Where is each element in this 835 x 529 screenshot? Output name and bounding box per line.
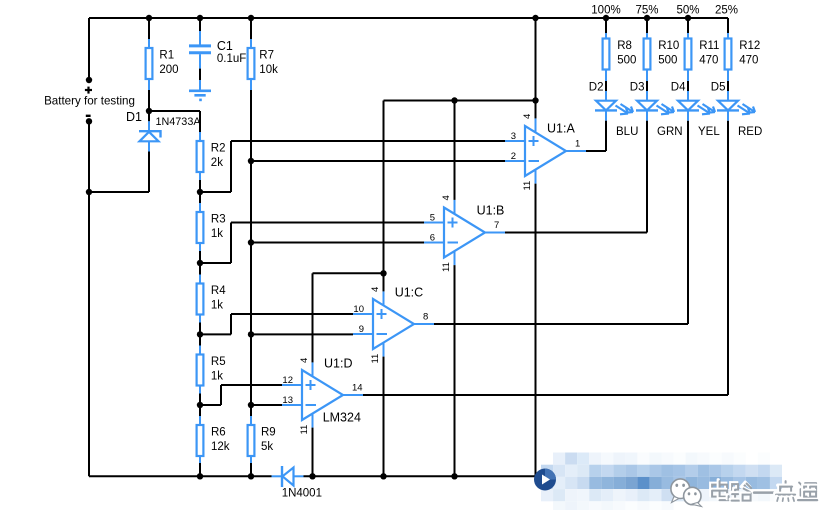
svg-text:11: 11: [299, 425, 310, 435]
svg-text:Battery for testing: Battery for testing: [44, 95, 135, 108]
svg-text:U1:D: U1:D: [324, 357, 352, 371]
svg-text:R11: R11: [699, 40, 719, 52]
svg-text:25%: 25%: [715, 5, 738, 17]
svg-text:14: 14: [352, 383, 363, 394]
svg-text:R1: R1: [159, 50, 174, 62]
svg-text:D1: D1: [126, 110, 142, 124]
svg-text:C1: C1: [217, 39, 233, 53]
svg-text:500: 500: [617, 55, 636, 67]
svg-text:1: 1: [575, 139, 580, 150]
svg-text:LM324: LM324: [323, 411, 361, 425]
svg-text:470: 470: [739, 55, 758, 67]
svg-text:1k: 1k: [211, 300, 223, 312]
svg-text:4: 4: [370, 287, 381, 292]
svg-text:3: 3: [511, 131, 516, 142]
svg-text:1N4001: 1N4001: [282, 487, 322, 499]
svg-text:200: 200: [159, 64, 178, 76]
svg-text:R4: R4: [211, 285, 226, 297]
svg-text:R8: R8: [617, 40, 632, 52]
svg-text:10: 10: [353, 304, 364, 315]
svg-text:6: 6: [430, 233, 435, 244]
svg-text:2: 2: [511, 151, 516, 162]
svg-text:R5: R5: [211, 356, 226, 368]
svg-text:8: 8: [423, 312, 428, 323]
svg-text:4: 4: [522, 114, 533, 119]
svg-text:R12: R12: [739, 40, 760, 52]
svg-text:1N4733A: 1N4733A: [156, 116, 202, 128]
svg-text:R6: R6: [211, 427, 226, 439]
svg-text:R3: R3: [211, 214, 226, 226]
svg-text:U1:A: U1:A: [547, 122, 575, 136]
svg-text:9: 9: [359, 324, 364, 335]
svg-text:470: 470: [699, 55, 718, 67]
svg-text:GRN: GRN: [657, 126, 683, 138]
svg-text:R10: R10: [658, 40, 679, 52]
svg-text:1k: 1k: [211, 228, 223, 240]
svg-text:R9: R9: [261, 427, 276, 439]
svg-text:75%: 75%: [635, 5, 658, 17]
svg-text:RED: RED: [738, 126, 762, 138]
svg-text:R2: R2: [211, 143, 226, 155]
svg-text:D4: D4: [671, 82, 686, 94]
svg-text:U1:B: U1:B: [477, 204, 505, 218]
svg-text:YEL: YEL: [698, 126, 720, 138]
svg-text:U1:C: U1:C: [395, 286, 423, 300]
svg-text:4: 4: [441, 195, 452, 200]
svg-text:500: 500: [658, 55, 677, 67]
svg-text:2k: 2k: [211, 157, 223, 169]
svg-text:50%: 50%: [676, 5, 699, 17]
svg-text:5k: 5k: [261, 441, 273, 453]
svg-text:13: 13: [282, 395, 293, 406]
svg-text:11: 11: [522, 181, 533, 191]
svg-text:BLU: BLU: [616, 126, 638, 138]
svg-text:D3: D3: [630, 82, 645, 94]
svg-text:1k: 1k: [211, 371, 223, 383]
svg-text:R7: R7: [259, 50, 274, 62]
svg-text:5: 5: [430, 213, 435, 224]
svg-text:D2: D2: [589, 82, 604, 94]
svg-text:7: 7: [494, 220, 499, 231]
svg-text:0.1uF: 0.1uF: [217, 53, 246, 65]
svg-text:100%: 100%: [591, 5, 620, 17]
svg-text:4: 4: [299, 358, 310, 363]
svg-text:10k: 10k: [259, 64, 278, 76]
svg-text:11: 11: [370, 354, 381, 364]
svg-text:12: 12: [282, 375, 293, 386]
svg-text:11: 11: [441, 262, 452, 272]
svg-text:D5: D5: [711, 82, 726, 94]
svg-text:12k: 12k: [211, 441, 230, 453]
